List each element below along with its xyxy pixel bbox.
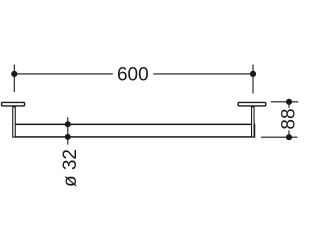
dim 88: top stub	[288, 102, 290, 108]
svg-text:ø 32: ø 32	[60, 149, 81, 187]
dim 88: bottom line	[261, 136, 298, 138]
svg-text:88: 88	[279, 108, 300, 129]
dim 88: bottom dot	[286, 134, 292, 140]
dim 600: line right segment	[153, 73, 253, 75]
bar (towel rail tube, side view)	[14, 124, 254, 137]
svg-text:600: 600	[117, 65, 149, 86]
dim 88: top line	[271, 101, 298, 103]
right wall flange	[238, 102, 266, 106]
dim 600: right dot	[250, 71, 256, 77]
left post	[13, 107, 16, 137]
dim 600: left dot	[11, 71, 17, 77]
dim ø32: vertical line	[67, 117, 69, 144]
dim 88: bottom stub	[288, 130, 290, 137]
left wall flange	[2, 102, 25, 106]
right post	[252, 107, 255, 137]
dim ø32: bottom dot	[65, 134, 71, 140]
dim ø32: top dot	[65, 121, 71, 127]
dim 600: right extension line	[252, 65, 254, 94]
dim 600: line left segment	[14, 73, 113, 75]
dim 600: left extension line	[13, 65, 15, 93]
dim 88: top dot	[286, 99, 292, 105]
